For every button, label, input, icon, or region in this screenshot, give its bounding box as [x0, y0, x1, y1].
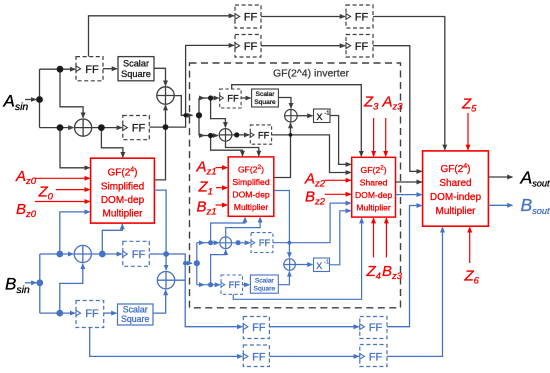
flip-flop FF3: [123, 116, 150, 140]
xor gate XOR4: [219, 129, 232, 142]
node blue row2 tap: [56, 310, 63, 317]
wire SS_i out up into XOR_bi3 bottom: [278, 272, 289, 285]
wire B_z1: [216, 204, 228, 206]
svg-text:FF: FF: [369, 322, 383, 334]
wire XOR_bi out to FF_i1: [232, 242, 250, 244]
svg-text:FF: FF: [132, 249, 146, 261]
wire XOR2 out to inverter input: [174, 96, 192, 116]
svg-text:Multiplier: Multiplier: [356, 203, 391, 213]
wire blue row2 to FF_b2: [40, 312, 75, 314]
svg-text:FF: FF: [244, 12, 258, 24]
wire A_z2: [325, 179, 351, 181]
wire A_z1: [216, 167, 228, 169]
wire XOR_b2 out to blue inverter input: [175, 263, 192, 280]
label Z_1: [198, 179, 213, 198]
flip-flop FF5: [220, 89, 241, 108]
wire XOR4 out to FF6: [232, 134, 249, 136]
wire elbow XOR1 out to multiplier top input: [101, 128, 123, 158]
wire row2 to XOR1 left: [40, 127, 74, 129]
flip-flop FF_i1: [251, 233, 273, 253]
wire FF3 out up to pipeline FF row2: [149, 45, 234, 127]
xor gate XOR_bi3: [284, 259, 296, 271]
node pipeline riser crossing: [183, 113, 187, 117]
label B_sout: [521, 195, 550, 216]
label B_z3: [382, 263, 403, 282]
wire trunk split: [39, 69, 41, 127]
wire FF_i1 out to shared GF(2^2) left: [273, 203, 351, 243]
svg-text:FF: FF: [227, 92, 239, 103]
wire B_sin input: [25, 282, 36, 284]
wire Z_5: [467, 113, 469, 150]
svg-text:FF: FF: [252, 352, 266, 364]
flip-flop FFb1: [346, 5, 373, 28]
wire GF(2^2) shared A-out to GF(2^4) shared: [396, 181, 422, 183]
wire blue riser to multiplier left (B): [60, 212, 90, 254]
wire X^-1 out to shared GF(2^2) left: [330, 116, 351, 165]
wire XOR_bi3 out to X^-1 (B): [295, 264, 312, 266]
label A_sin: [3, 92, 29, 113]
svg-text:X: X: [316, 112, 322, 122]
wire SS_b1 out up into XOR_b2 bottom: [153, 290, 166, 313]
wire Z_1: [216, 187, 227, 189]
xor gate XOR_b2: [157, 272, 174, 289]
wire A_z0: [35, 177, 90, 179]
scalar square SS1: [118, 57, 154, 81]
wire branch row2 down to GF(2^2) simplified top: [211, 136, 243, 156]
xor gate XOR2: [157, 87, 174, 104]
inverse block X^-1 (B): [314, 258, 330, 272]
wire FFb1 out to shared multiplier top: [373, 17, 445, 150]
label Z_5: [461, 96, 477, 115]
svg-text:Scalar: Scalar: [123, 305, 148, 315]
wire FF_d1 out up to shared multiplier left (B): [387, 206, 422, 327]
svg-text:GF(2^4) inverter: GF(2^4) inverter: [273, 68, 350, 80]
node FF_b1 out tap: [163, 251, 169, 257]
wire FF6 out to shared GF(2^2) left: [272, 135, 351, 173]
wire blue inner row1: [197, 242, 204, 244]
node XOR1 out tap: [98, 124, 105, 131]
label Z_3: [363, 94, 379, 113]
wire riser row2 dot to multiplier left input: [60, 128, 90, 168]
wire Z_0: [56, 189, 90, 191]
wire XOR4 bottom tap to GF(2^2) simplified top: [226, 141, 259, 156]
svg-text:DOM-dep: DOM-dep: [101, 195, 145, 206]
flip-flop FFa1: [235, 5, 261, 28]
scalar square SS2: [252, 89, 279, 107]
wire FFa1 to FFb1: [261, 16, 345, 18]
wire branch row1 dot down into XOR1 top: [60, 69, 83, 118]
label B_sin: [5, 275, 30, 296]
label B_z2: [305, 189, 326, 208]
svg-text:FF: FF: [132, 123, 146, 135]
svg-text:FF: FF: [259, 237, 271, 248]
wire FFa2 to FFb2: [261, 45, 345, 47]
wire multiplier A-out up into XOR2 bottom: [154, 105, 165, 180]
node blue row1 tap: [56, 251, 63, 258]
label Z_6: [464, 268, 480, 287]
wire blue inner row2: [197, 284, 204, 286]
wire inner row2: [199, 135, 204, 137]
wire inner row1: [199, 97, 204, 99]
wire blue row2 branch up into XOR_b1 bottom: [60, 264, 83, 313]
wire Z_3: [373, 118, 375, 156]
wire blue row2 elbow up into XOR_bi bottom: [211, 250, 226, 285]
node A_sin split: [36, 96, 43, 103]
flip-flop FF_i2: [221, 275, 243, 294]
wire blue inner trunk: [196, 243, 198, 285]
xor gate XOR1: [75, 119, 92, 136]
label B_z1: [197, 199, 217, 218]
wire GF(2^2) simplified A-out up into XOR3 bottom: [274, 123, 291, 177]
flip-flop FF_d2: [360, 345, 387, 367]
wire FF_c2 to FF_d2: [269, 355, 358, 357]
node XOR4 out tap: [234, 132, 239, 137]
wire XOR_b1 out to FF_b1: [91, 253, 121, 255]
wire XOR3 to X^-1: [297, 115, 312, 117]
wire FF1 top tap to pipeline FF row1: [89, 16, 234, 57]
wire A_sin input: [25, 99, 36, 101]
wire multiplier B-out down into XOR_b2 top: [154, 190, 166, 270]
svg-text:Square: Square: [121, 69, 151, 79]
label A_z0: [15, 168, 37, 187]
svg-text:DOM-indep: DOM-indep: [430, 192, 482, 203]
node FF6 row crossing: [289, 133, 293, 137]
flip-flop FF_c2: [243, 345, 269, 367]
wire SS1 out into XOR2 top: [154, 68, 166, 85]
wire row1 to FF1: [40, 68, 76, 70]
flip-flop FFb2: [346, 35, 373, 58]
label B_z0: [16, 201, 37, 220]
svg-text:FF: FF: [369, 352, 383, 364]
svg-text:Multiplier: Multiplier: [234, 202, 269, 212]
label Z_4: [366, 263, 381, 282]
multiplier U1 GF(2^4) Simplified DOM-dep: [91, 158, 155, 223]
label A_sout: [520, 168, 550, 189]
wire XOR_bi top tap to GF(2^2) simplified bottom: [226, 217, 260, 237]
wire B_z0: [35, 201, 90, 203]
svg-text:X: X: [316, 261, 322, 271]
label: GF(2^4) inverter: [273, 68, 350, 80]
wire Z_4: [373, 218, 375, 257]
wire SS2 out into XOR3 top: [278, 98, 291, 109]
junction dots (blue outer): [36, 251, 187, 317]
wire X^-1 (B) out to shared GF(2^2) left: [330, 211, 351, 265]
wire B_z3: [385, 218, 387, 257]
svg-text:GF(22): GF(22): [238, 164, 264, 175]
wire A_sout output: [488, 176, 512, 178]
flip-flop FFa2: [235, 35, 261, 58]
label A_z2: [304, 171, 326, 190]
wire FF5 top tap to shared GF(2^2) top: [232, 85, 362, 157]
wire FF_b1 out down to bottom FF row1: [149, 254, 242, 327]
svg-text:Scalar: Scalar: [123, 59, 149, 69]
svg-text:Square: Square: [254, 285, 276, 292]
wire XOR1 out to FF3: [92, 127, 122, 129]
xor gate XOR_b1: [74, 245, 91, 262]
node blue inner row1 tap: [208, 240, 213, 245]
wire Z_6: [469, 227, 471, 263]
svg-text:Simplified: Simplified: [101, 182, 144, 193]
svg-text:FF: FF: [85, 64, 99, 76]
multiplier U4 GF(2^4) Shared DOM-indep: [423, 151, 489, 226]
junction dots (inner black): [196, 95, 293, 138]
multiplier U3 GF(2^2) Shared DOM-dep: [352, 157, 396, 217]
wire FF_b2 bottom tap to bottom FF row2: [90, 328, 243, 357]
svg-text:Simplified: Simplified: [232, 177, 269, 187]
svg-text:Shared: Shared: [360, 178, 388, 188]
scalar square SS_b1: [118, 304, 154, 325]
junction dots (blue inner): [194, 240, 292, 287]
wire FF_d2 out up to shared multiplier bottom (B): [387, 227, 443, 356]
node XOR_bi out tap: [236, 240, 241, 245]
node row2 tap: [57, 124, 64, 131]
node inverter input: [196, 112, 202, 118]
xor gate XOR3: [285, 109, 298, 122]
scalar square SS_i: [250, 275, 278, 293]
wire FF5 to SS2: [241, 97, 250, 99]
multiplier U2 GF(2^2) Simplified DOM-dep: [228, 157, 274, 216]
wire FF1 to Scalar Square: [103, 68, 117, 70]
wire FFb2 out to shared multiplier left: [373, 46, 422, 172]
wire FF_c1 to FF_d1: [269, 326, 358, 328]
GF(2^4) inverter dashed boundary box: [190, 63, 401, 308]
svg-text:FF: FF: [85, 308, 99, 320]
flip-flop FF_b2: [76, 301, 104, 328]
svg-text:FF: FF: [252, 322, 266, 334]
svg-text:Shared: Shared: [439, 178, 471, 189]
wire GF(2^2) simplified B-out down into XOR_bi3 top: [274, 191, 290, 258]
node B_sin split: [36, 279, 43, 286]
node XOR_b1 out tap: [99, 251, 106, 258]
svg-text:DOM-dep: DOM-dep: [355, 190, 392, 200]
xor gate XOR_bi: [220, 237, 232, 249]
flip-flop FF_d1: [360, 317, 387, 339]
wire elbow XOR_b1 out up into multiplier bottom: [102, 224, 122, 254]
label A_z1: [196, 159, 217, 178]
svg-text:FF: FF: [258, 129, 270, 140]
svg-text:FF: FF: [355, 12, 369, 24]
wire blue row1 to XOR_b1: [40, 253, 73, 255]
junction dots (black outer): [36, 66, 188, 131]
node inner row2 tap: [208, 133, 213, 138]
label Z_0: [38, 184, 54, 203]
svg-text:FF: FF: [244, 41, 258, 53]
node row1 tap: [57, 66, 64, 73]
wire FF_b2 to SS_b1: [104, 312, 117, 314]
node blue inverter input: [194, 260, 200, 266]
svg-text:Scalar: Scalar: [255, 277, 275, 284]
node FF_i1 row crossing: [288, 241, 292, 245]
flip-flop FF_b1: [123, 241, 150, 266]
svg-text:Square: Square: [254, 99, 276, 106]
svg-text:FF: FF: [355, 41, 369, 53]
svg-text:GF(22): GF(22): [361, 165, 387, 176]
flip-flop FF1: [76, 57, 103, 81]
wire FF_i2 to SS_i: [243, 284, 250, 286]
wire FF_i2 bottom tap to shared GF(2^2) bottom: [233, 218, 361, 299]
svg-text:Scalar: Scalar: [256, 91, 276, 98]
wire blue row1 branch up to GF(2^2) simplified bottom: [211, 217, 245, 242]
wire inner trunk: [198, 98, 200, 136]
wire GF(2^2) shared B-out to GF(2^4) shared: [396, 194, 422, 196]
node inner row1 tap: [208, 95, 213, 100]
node blue inner row2 tap: [208, 282, 213, 287]
wire B_sout output: [488, 204, 512, 206]
svg-text:Multiplier: Multiplier: [435, 206, 476, 217]
svg-text:Square: Square: [121, 314, 149, 324]
svg-text:-1: -1: [324, 260, 329, 266]
svg-text:FF: FF: [229, 279, 241, 290]
flip-flop FF_c1: [243, 317, 269, 339]
label A_z3: [382, 94, 404, 113]
svg-text:Multiplier: Multiplier: [102, 209, 143, 220]
wire A_z3: [385, 118, 387, 156]
node blue pipeline crossing: [183, 261, 187, 265]
svg-text:DOM-dep: DOM-dep: [232, 190, 269, 200]
wire B_z2: [325, 193, 351, 195]
inverse block X^-1: [314, 109, 331, 123]
svg-text:-1: -1: [325, 111, 330, 117]
wire inner branch into XOR4 top: [211, 98, 226, 127]
wire blue trunk: [39, 254, 41, 313]
node FF3 out tap: [163, 124, 169, 130]
flip-flop FF6: [250, 125, 271, 144]
